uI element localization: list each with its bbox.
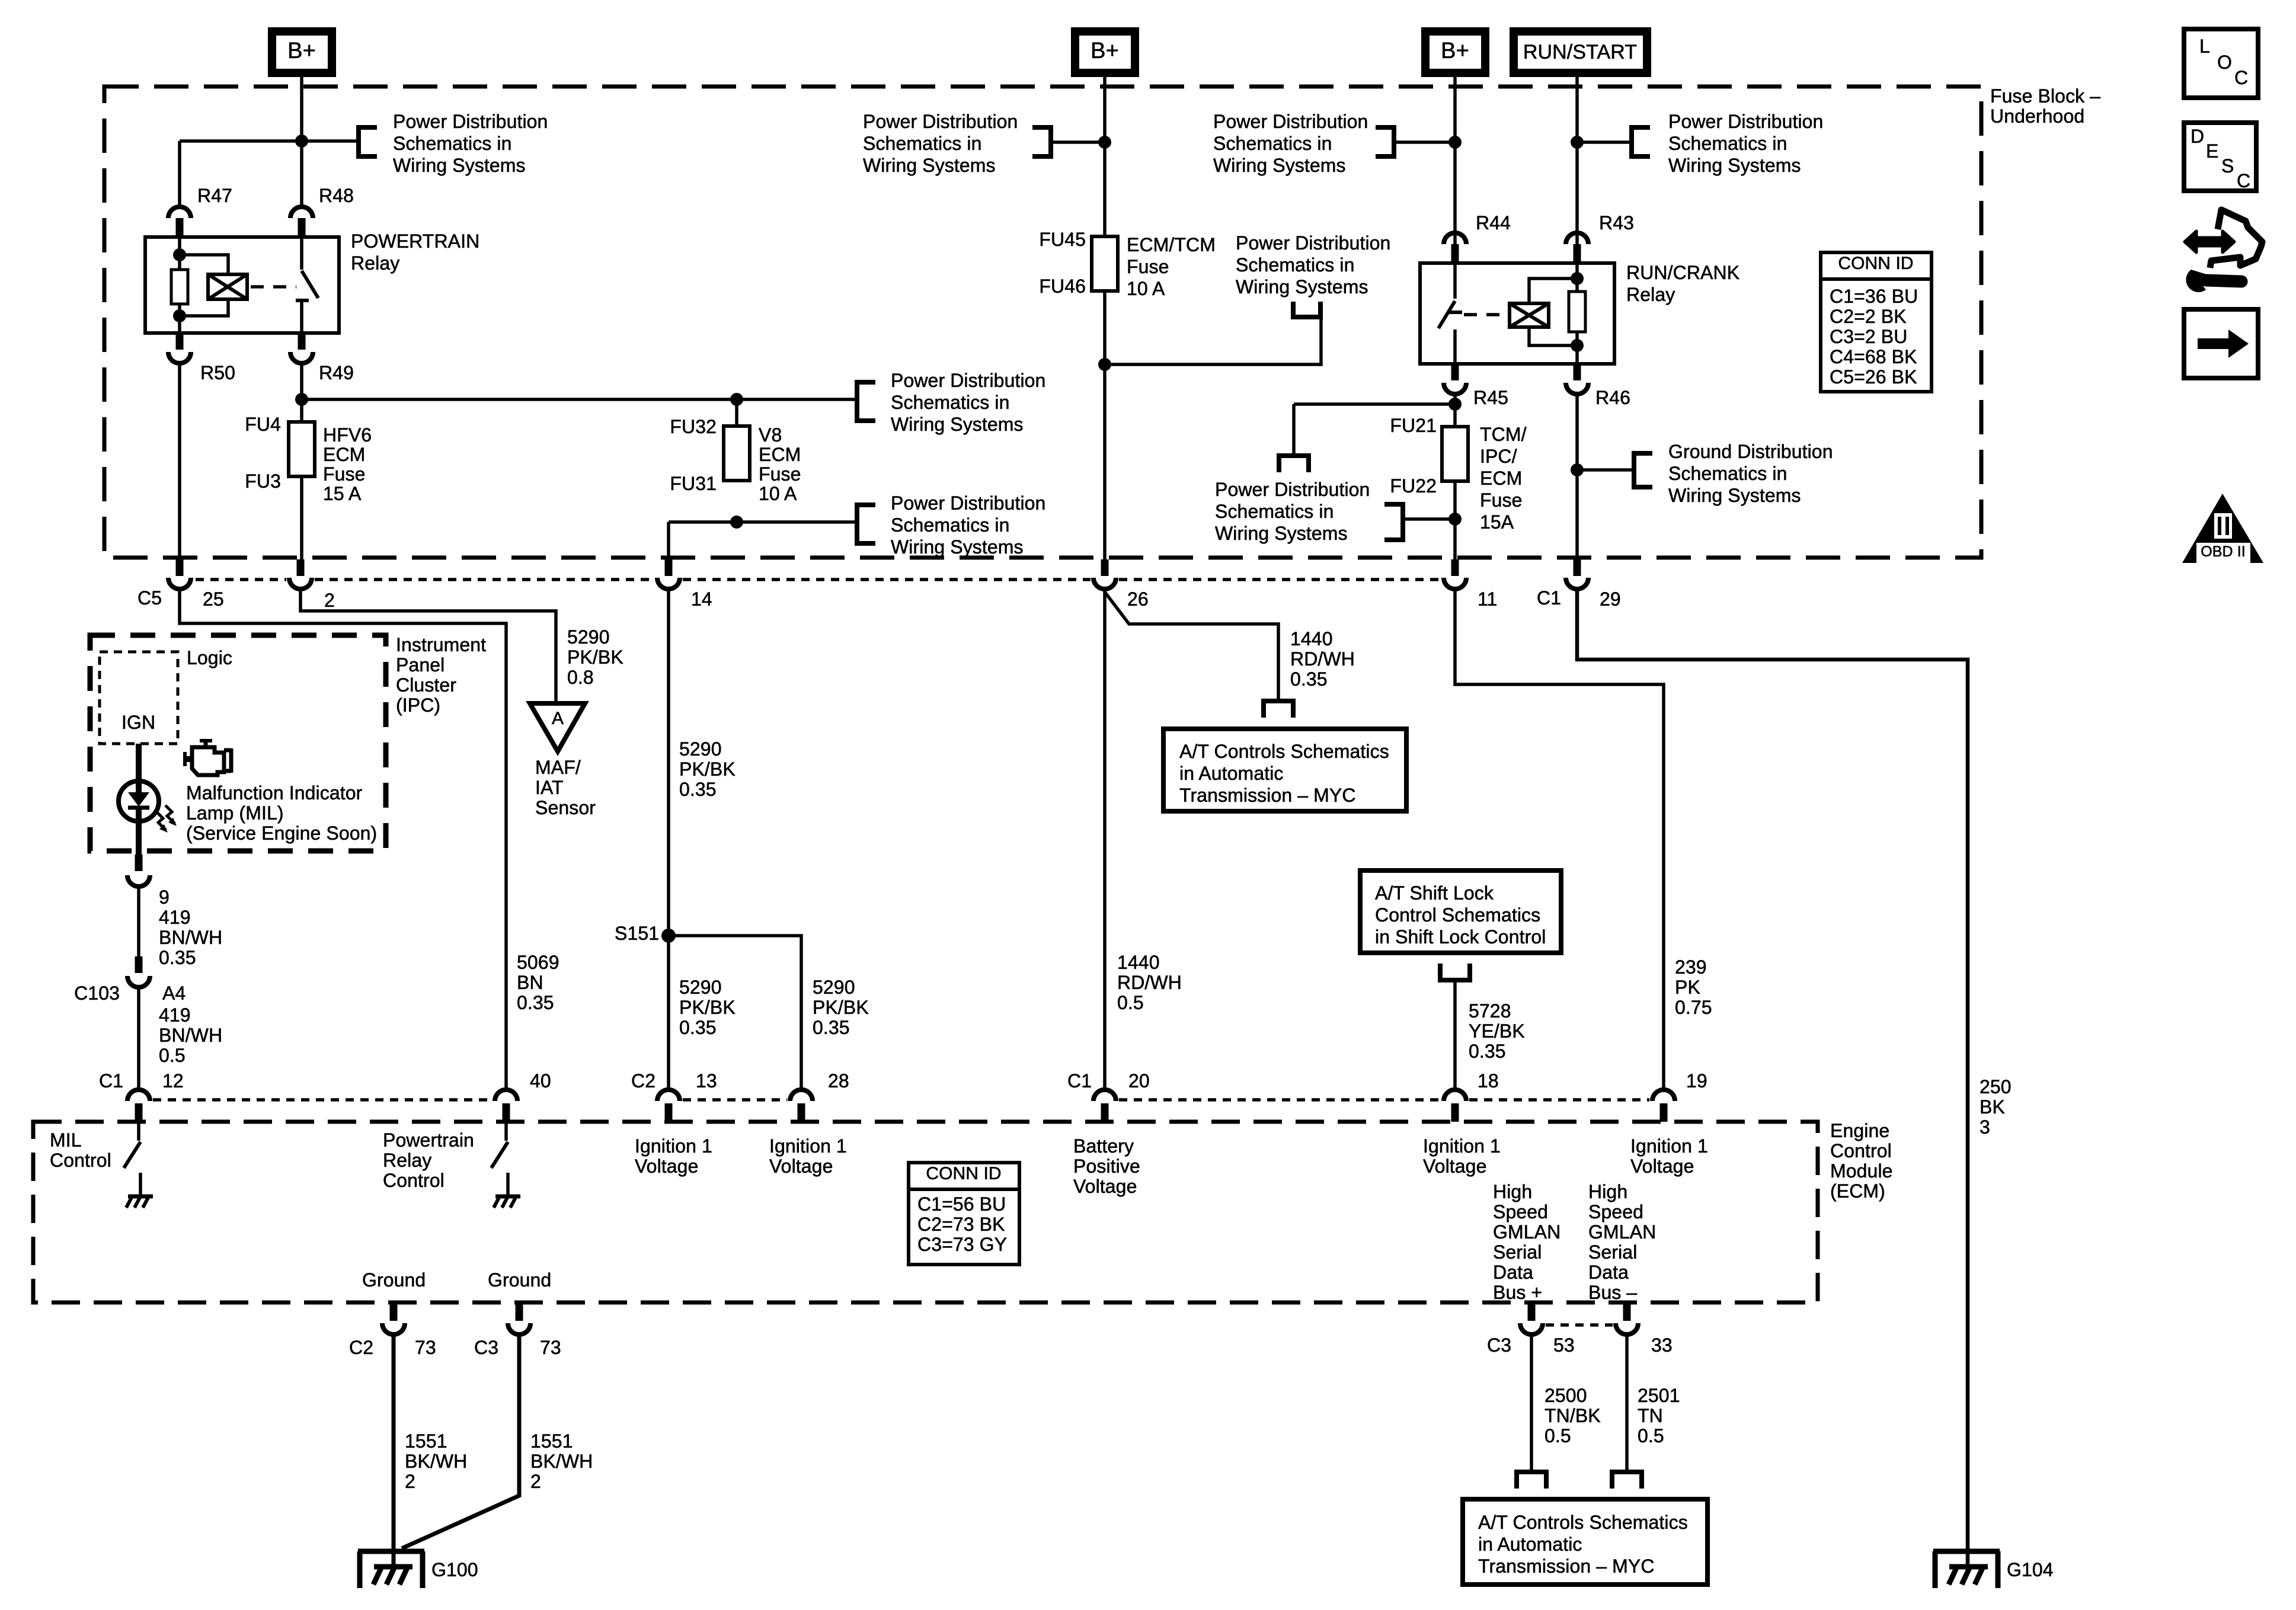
svg-text:0.35: 0.35 bbox=[159, 947, 196, 968]
svg-text:0.35: 0.35 bbox=[679, 1017, 717, 1038]
svg-text:Power Distribution: Power Distribution bbox=[1668, 111, 1823, 132]
fuse FU21/FU22 TCM/IPC/ECM 15A bbox=[1442, 427, 1468, 481]
reference bracket (power distribution) bbox=[1291, 315, 1323, 319]
svg-text:14: 14 bbox=[691, 588, 712, 610]
svg-text:RD/WH: RD/WH bbox=[1290, 648, 1355, 670]
svg-text:C1: C1 bbox=[1067, 1070, 1092, 1092]
svg-text:C3=73 GY: C3=73 GY bbox=[917, 1234, 1007, 1255]
ground G104 bbox=[1933, 1549, 2000, 1554]
connector pin C5 25 bbox=[176, 559, 184, 576]
connector pin C1 29 bbox=[1574, 559, 1581, 576]
svg-text:C1: C1 bbox=[1537, 587, 1561, 609]
reference bracket (bus -) bbox=[1610, 1470, 1644, 1474]
svg-text:12: 12 bbox=[162, 1070, 184, 1092]
svg-text:1551: 1551 bbox=[530, 1430, 573, 1452]
svg-text:BN/WH: BN/WH bbox=[159, 927, 222, 948]
svg-text:A/T Controls Schematics: A/T Controls Schematics bbox=[1478, 1512, 1688, 1533]
svg-text:G100: G100 bbox=[431, 1559, 478, 1580]
svg-text:3: 3 bbox=[1980, 1116, 1990, 1138]
svg-text:Wiring Systems: Wiring Systems bbox=[1668, 485, 1801, 506]
svg-text:1551: 1551 bbox=[405, 1430, 447, 1452]
svg-text:Voltage: Voltage bbox=[769, 1156, 833, 1177]
connector pin 26 bbox=[1101, 559, 1109, 576]
wire FU22 to fuse block pin 11 bbox=[1453, 481, 1457, 559]
power feed terminal B+ (right) bbox=[1425, 31, 1485, 73]
svg-text:0.5: 0.5 bbox=[1638, 1425, 1664, 1446]
svg-text:C3: C3 bbox=[1487, 1334, 1511, 1356]
relay coil resistor bbox=[171, 270, 188, 304]
svg-text:S151: S151 bbox=[615, 923, 659, 944]
svg-text:2: 2 bbox=[324, 590, 335, 611]
svg-text:ECM: ECM bbox=[759, 444, 801, 465]
power feed terminal B+ (left) bbox=[272, 31, 332, 73]
ECM pin 19 bbox=[1652, 1090, 1675, 1101]
svg-text:Power Distribution: Power Distribution bbox=[393, 111, 548, 132]
svg-text:Lamp (MIL): Lamp (MIL) bbox=[186, 802, 284, 824]
wire FU3 to fuse block pin 2 bbox=[300, 476, 303, 559]
svg-text:R45: R45 bbox=[1473, 387, 1508, 408]
svg-text:Control: Control bbox=[383, 1170, 445, 1191]
icon OBD II triangle bbox=[2182, 494, 2263, 563]
wire pin 14 to S151 (5290 PK/BK) bbox=[667, 590, 670, 1090]
svg-text:Ground Distribution: Ground Distribution bbox=[1668, 441, 1833, 462]
svg-text:Schematics in: Schematics in bbox=[891, 514, 1010, 536]
wire R49 down to fuse FU4 bbox=[300, 363, 303, 422]
svg-text:Ignition 1: Ignition 1 bbox=[1630, 1135, 1708, 1157]
svg-text:0.5: 0.5 bbox=[1117, 992, 1144, 1013]
svg-text:Relay: Relay bbox=[1626, 284, 1675, 305]
svg-text:ECM: ECM bbox=[1480, 468, 1522, 489]
connector pin 11 bbox=[1451, 559, 1459, 576]
svg-text:Control: Control bbox=[50, 1150, 111, 1171]
svg-text:O: O bbox=[2217, 52, 2232, 73]
svg-text:29: 29 bbox=[1600, 588, 1621, 610]
svg-text:C103: C103 bbox=[74, 982, 120, 1004]
svg-text:Ignition 1: Ignition 1 bbox=[635, 1135, 712, 1157]
connector pin R50 bbox=[176, 333, 184, 350]
svg-text:D: D bbox=[2191, 126, 2204, 147]
svg-text:Ignition 1: Ignition 1 bbox=[769, 1135, 847, 1157]
ECM pin 18 bbox=[1444, 1090, 1466, 1101]
svg-text:Schematics in: Schematics in bbox=[393, 133, 512, 154]
svg-text:B+: B+ bbox=[287, 39, 316, 63]
svg-text:C5=26 BK: C5=26 BK bbox=[1830, 366, 1917, 388]
ECM pin C2 13 bbox=[657, 1090, 680, 1101]
svg-text:in Automatic: in Automatic bbox=[1179, 763, 1284, 784]
relay POWERTRAIN box bbox=[145, 237, 339, 333]
svg-text:Power Distribution: Power Distribution bbox=[863, 111, 1018, 132]
relay coil feed wires bbox=[1529, 279, 1577, 303]
svg-text:C2: C2 bbox=[349, 1337, 373, 1358]
svg-text:Bus +: Bus + bbox=[1493, 1282, 1542, 1303]
svg-text:Ground: Ground bbox=[362, 1269, 426, 1291]
wire B+ center down through FU45 bbox=[1103, 77, 1107, 236]
engine icon (service engine soon) bbox=[192, 747, 224, 775]
relay RUN/CRANK box bbox=[1420, 263, 1614, 364]
svg-text:Instrument: Instrument bbox=[396, 634, 486, 655]
fuse block connector row dotted line bbox=[196, 578, 286, 581]
wire 2501 TN bbox=[1625, 1334, 1629, 1470]
svg-text:Wiring Systems: Wiring Systems bbox=[891, 414, 1024, 435]
relay coil feed wire bbox=[178, 237, 181, 271]
wire 1551 BK/WH right to G100 bbox=[402, 1334, 519, 1548]
svg-text:Fuse: Fuse bbox=[759, 463, 801, 485]
connector pin 2 bbox=[297, 559, 305, 576]
svg-text:MAF/: MAF/ bbox=[535, 757, 581, 778]
svg-text:0.35: 0.35 bbox=[813, 1017, 850, 1038]
svg-text:C: C bbox=[2237, 170, 2250, 191]
relay switch contact bbox=[1453, 263, 1457, 299]
svg-text:(ECM): (ECM) bbox=[1830, 1180, 1885, 1202]
svg-text:0.35: 0.35 bbox=[517, 992, 554, 1013]
svg-text:BK: BK bbox=[1980, 1096, 2005, 1118]
svg-text:C3: C3 bbox=[474, 1337, 498, 1358]
relay coil resistor bbox=[1575, 263, 1579, 292]
ground (MIL control) bbox=[128, 1195, 153, 1199]
indicator lamp MIL circle bbox=[119, 781, 159, 821]
svg-text:Ground: Ground bbox=[488, 1269, 551, 1291]
wire branch pin 26 to A/T controls reference bbox=[1105, 592, 1278, 701]
svg-text:Serial: Serial bbox=[1588, 1241, 1637, 1263]
svg-text:Wiring Systems: Wiring Systems bbox=[1215, 523, 1348, 544]
relay actuator dashed link bbox=[251, 285, 296, 289]
wire R45 to junction and left branch bbox=[1453, 394, 1457, 427]
CONN ID table (fuse block) bbox=[1821, 252, 1932, 392]
svg-text:C5: C5 bbox=[137, 587, 162, 609]
svg-text:2500: 2500 bbox=[1544, 1385, 1587, 1406]
svg-text:Control Schematics: Control Schematics bbox=[1375, 904, 1540, 926]
svg-text:BN/WH: BN/WH bbox=[159, 1025, 222, 1046]
lamp diode symbol bbox=[136, 782, 142, 792]
svg-text:CONN ID: CONN ID bbox=[1838, 254, 1913, 273]
wire horizontal fused feed to FU32 and bracket bbox=[669, 520, 855, 524]
svg-text:R46: R46 bbox=[1595, 387, 1630, 408]
svg-text:High: High bbox=[1493, 1181, 1532, 1202]
svg-text:TN: TN bbox=[1638, 1405, 1663, 1426]
svg-text:G104: G104 bbox=[2007, 1559, 2054, 1580]
svg-text:5290: 5290 bbox=[679, 977, 722, 998]
wire B+ left down to relay pin R48 bbox=[300, 77, 303, 207]
reference bracket (power distribution) bbox=[356, 125, 361, 159]
wire B+ right down to relay R44 bbox=[1394, 140, 1455, 144]
wire pin 2 to MAF sensor (5290 PK/BK 0.8) bbox=[300, 590, 556, 703]
svg-text:BN: BN bbox=[517, 972, 543, 993]
reference bracket to A/T controls bbox=[1261, 699, 1296, 703]
fuse block - underhood dashed box bbox=[104, 87, 1981, 558]
svg-text:Wiring Systems: Wiring Systems bbox=[863, 155, 996, 176]
svg-text:Schematics in: Schematics in bbox=[1668, 133, 1787, 154]
svg-text:GMLAN: GMLAN bbox=[1493, 1221, 1560, 1243]
ECM pin 33 bbox=[1623, 1302, 1631, 1321]
svg-text:Voltage: Voltage bbox=[1423, 1156, 1486, 1177]
svg-text:19: 19 bbox=[1686, 1070, 1707, 1092]
svg-text:Power Distribution: Power Distribution bbox=[891, 370, 1045, 391]
svg-text:C1=56 BU: C1=56 BU bbox=[917, 1193, 1006, 1215]
connector pin R49 bbox=[298, 333, 306, 350]
svg-text:C2=2 BK: C2=2 BK bbox=[1830, 306, 1907, 327]
splice node S151 bbox=[661, 929, 676, 943]
connector pin 14 bbox=[665, 559, 673, 576]
svg-text:Panel: Panel bbox=[396, 654, 445, 676]
svg-text:Schematics in: Schematics in bbox=[1236, 254, 1355, 276]
svg-text:Fuse: Fuse bbox=[323, 463, 366, 485]
svg-text:Wiring Systems: Wiring Systems bbox=[393, 155, 526, 176]
svg-text:419: 419 bbox=[159, 1004, 191, 1026]
svg-text:Voltage: Voltage bbox=[1073, 1176, 1137, 1197]
svg-text:B+: B+ bbox=[1441, 39, 1469, 63]
wire pin 29 to G104 (250 BK) bbox=[1577, 590, 1968, 1570]
svg-text:A/T Shift Lock: A/T Shift Lock bbox=[1375, 882, 1494, 904]
wire 5728 YE/BK to ECM pin 18 bbox=[1453, 980, 1457, 1090]
svg-text:0.35: 0.35 bbox=[1290, 668, 1328, 690]
svg-text:R49: R49 bbox=[319, 362, 354, 383]
svg-text:C2=73 BK: C2=73 BK bbox=[917, 1214, 1005, 1235]
svg-text:Voltage: Voltage bbox=[1630, 1156, 1694, 1177]
svg-text:C4=68 BK: C4=68 BK bbox=[1830, 346, 1917, 367]
svg-text:PK/BK: PK/BK bbox=[567, 646, 623, 668]
relay actuator dashed link bbox=[1464, 313, 1506, 316]
svg-text:Data: Data bbox=[1493, 1262, 1533, 1283]
wire 2500 TN/BK bbox=[1530, 1334, 1533, 1470]
power feed terminal RUN/START bbox=[1514, 31, 1647, 73]
reference bracket (power distribution) bbox=[855, 502, 859, 546]
svg-text:5728: 5728 bbox=[1469, 1000, 1511, 1022]
svg-text:(IPC): (IPC) bbox=[396, 694, 440, 716]
svg-text:PK/BK: PK/BK bbox=[679, 997, 736, 1018]
svg-text:40: 40 bbox=[530, 1070, 551, 1092]
svg-text:R48: R48 bbox=[319, 185, 354, 206]
wire 1551 BK/WH left to G100 bbox=[392, 1334, 396, 1570]
svg-text:Power Distribution: Power Distribution bbox=[1215, 479, 1370, 500]
relay coil symbol bbox=[1510, 303, 1549, 327]
svg-text:CONN ID: CONN ID bbox=[926, 1164, 1001, 1183]
wire to left reference bracket bbox=[1053, 140, 1105, 144]
svg-text:Powertrain: Powertrain bbox=[383, 1129, 474, 1151]
svg-text:Bus –: Bus – bbox=[1588, 1282, 1637, 1303]
svg-text:9: 9 bbox=[159, 886, 170, 908]
svg-text:A/T Controls Schematics: A/T Controls Schematics bbox=[1179, 741, 1389, 762]
svg-text:Transmission – MYC: Transmission – MYC bbox=[1478, 1555, 1655, 1577]
svg-text:Power Distribution: Power Distribution bbox=[1213, 111, 1368, 132]
svg-text:Engine: Engine bbox=[1830, 1120, 1889, 1141]
svg-text:Ignition 1: Ignition 1 bbox=[1423, 1135, 1501, 1157]
svg-text:ECM/TCM: ECM/TCM bbox=[1127, 234, 1216, 255]
callout box A/T Shift Lock Control Schematics bbox=[1360, 870, 1561, 953]
CONN ID table (ECM) bbox=[909, 1163, 1019, 1265]
svg-text:Cluster: Cluster bbox=[396, 674, 456, 696]
svg-text:15 A: 15 A bbox=[323, 483, 362, 504]
svg-text:High: High bbox=[1588, 1181, 1627, 1202]
logic dashed box bbox=[100, 652, 178, 744]
svg-text:FU45: FU45 bbox=[1039, 229, 1086, 250]
svg-text:PK/BK: PK/BK bbox=[679, 758, 736, 780]
svg-text:0.8: 0.8 bbox=[567, 667, 594, 688]
svg-text:in Automatic: in Automatic bbox=[1478, 1534, 1582, 1555]
wire pin 11 to ECM pin 18 feed (239 PK riser) bbox=[1455, 590, 1664, 1090]
svg-text:0.35: 0.35 bbox=[679, 779, 717, 800]
reference bracket (power distribution) bbox=[855, 380, 859, 423]
icon forward arrow box bbox=[2184, 309, 2258, 378]
ECM pin 28 bbox=[790, 1090, 813, 1101]
svg-text:10 A: 10 A bbox=[759, 483, 797, 504]
svg-text:Voltage: Voltage bbox=[635, 1156, 698, 1177]
svg-text:Control: Control bbox=[1830, 1140, 1892, 1161]
svg-text:250: 250 bbox=[1980, 1076, 2012, 1097]
svg-text:Data: Data bbox=[1588, 1262, 1629, 1283]
wire R46 junction to bracket bbox=[1577, 468, 1632, 472]
svg-text:Wiring Systems: Wiring Systems bbox=[1236, 276, 1368, 297]
svg-text:5290: 5290 bbox=[679, 738, 722, 760]
svg-text:Fuse: Fuse bbox=[1127, 256, 1169, 277]
power feed terminal B+ (center) bbox=[1075, 31, 1135, 73]
svg-text:73: 73 bbox=[415, 1337, 436, 1358]
svg-text:Serial: Serial bbox=[1493, 1241, 1542, 1263]
svg-text:Battery: Battery bbox=[1073, 1135, 1134, 1157]
svg-text:Wiring Systems: Wiring Systems bbox=[1668, 155, 1801, 176]
svg-text:C2: C2 bbox=[631, 1070, 655, 1092]
ground G100 bbox=[358, 1549, 424, 1554]
inline connector C103 pin A4 bbox=[135, 956, 143, 973]
icon wrench and arrow bbox=[2185, 231, 2234, 252]
svg-text:0.5: 0.5 bbox=[159, 1045, 186, 1066]
svg-text:5290: 5290 bbox=[567, 626, 610, 648]
svg-text:33: 33 bbox=[1651, 1334, 1673, 1356]
svg-text:Fuse Block –: Fuse Block – bbox=[1990, 85, 2100, 107]
reference bracket (ground distribution) bbox=[1632, 451, 1636, 489]
svg-text:239: 239 bbox=[1675, 956, 1707, 978]
reference bracket (bus +) bbox=[1514, 1470, 1549, 1474]
wire MIL lamp to IPC pin 9 bbox=[136, 820, 142, 854]
svg-text:18: 18 bbox=[1478, 1070, 1499, 1092]
svg-text:TCM/: TCM/ bbox=[1480, 424, 1527, 445]
svg-text:IPC/: IPC/ bbox=[1480, 446, 1517, 467]
svg-text:in Shift Lock Control: in Shift Lock Control bbox=[1375, 926, 1546, 948]
svg-text:A: A bbox=[552, 709, 564, 728]
svg-text:(Service Engine Soon): (Service Engine Soon) bbox=[186, 822, 377, 844]
wire FU32 top to junction on R49 line bbox=[735, 399, 738, 426]
svg-text:1440: 1440 bbox=[1290, 628, 1333, 649]
svg-text:20: 20 bbox=[1128, 1070, 1150, 1092]
svg-text:A4: A4 bbox=[162, 982, 186, 1004]
svg-text:Power Distribution: Power Distribution bbox=[1236, 232, 1390, 254]
wire R49 junction to reference bracket bbox=[302, 398, 855, 401]
svg-text:FU4: FU4 bbox=[245, 414, 281, 435]
svg-text:419: 419 bbox=[159, 907, 191, 928]
wire FU22 junction left to bracket bbox=[1405, 517, 1455, 521]
svg-text:FU46: FU46 bbox=[1039, 276, 1086, 297]
svg-text:53: 53 bbox=[1553, 1334, 1575, 1356]
wire FU31 bottom junction down to pin 14 bbox=[667, 522, 670, 559]
svg-text:R47: R47 bbox=[197, 185, 232, 206]
svg-text:PK/BK: PK/BK bbox=[813, 997, 869, 1018]
wire R46 to fuse block pin 29 bbox=[1575, 394, 1579, 559]
svg-text:L: L bbox=[2199, 36, 2210, 57]
svg-text:E: E bbox=[2206, 140, 2218, 162]
svg-text:13: 13 bbox=[696, 1070, 717, 1092]
callout box A/T Controls Schematics (bottom) bbox=[1463, 1499, 1707, 1585]
ECM bottom pins dotted line bbox=[1546, 1323, 1613, 1327]
svg-text:Logic: Logic bbox=[187, 647, 232, 668]
svg-text:Fuse: Fuse bbox=[1480, 489, 1523, 511]
svg-text:R50: R50 bbox=[200, 362, 235, 383]
svg-text:S: S bbox=[2221, 155, 2234, 177]
relay switch contact bbox=[300, 237, 303, 270]
svg-text:0.75: 0.75 bbox=[1675, 997, 1712, 1018]
svg-text:RUN/START: RUN/START bbox=[1523, 41, 1637, 63]
wire branch to R47 and reference bracket bbox=[180, 139, 356, 143]
svg-text:1440: 1440 bbox=[1117, 952, 1160, 973]
svg-text:0.5: 0.5 bbox=[1544, 1425, 1571, 1446]
engine control module dashed box bbox=[33, 1122, 1818, 1302]
ECM pin C1 20 bbox=[1093, 1090, 1116, 1101]
ECM switch MIL control bbox=[137, 1122, 140, 1141]
svg-text:IGN: IGN bbox=[121, 712, 155, 733]
svg-text:Module: Module bbox=[1830, 1160, 1893, 1182]
wire pin 25 to ECM pin 40 (5069 BN) bbox=[180, 590, 506, 1090]
svg-text:FU3: FU3 bbox=[245, 470, 281, 492]
svg-text:5069: 5069 bbox=[517, 952, 559, 973]
wire S151 branch to ECM pin 28 bbox=[669, 936, 801, 1090]
ground (powertrain relay control) bbox=[495, 1195, 520, 1199]
svg-text:26: 26 bbox=[1127, 588, 1149, 610]
fuse FU32/FU31 V8 ECM 10A bbox=[724, 426, 750, 481]
wire RUN/START down to relay R43 bbox=[1575, 77, 1579, 247]
wire R50 to fuse block pin 25 bbox=[178, 363, 181, 559]
connector pin 9 bbox=[135, 854, 143, 871]
reference bracket for B+ right bbox=[1392, 125, 1396, 159]
svg-text:C3=2 BU: C3=2 BU bbox=[1830, 326, 1907, 347]
fuse FU45/FU46 ECM/TCM 10A bbox=[1092, 236, 1118, 291]
svg-text:Wiring Systems: Wiring Systems bbox=[1213, 155, 1346, 176]
svg-text:TN/BK: TN/BK bbox=[1544, 1405, 1601, 1426]
svg-text:RD/WH: RD/WH bbox=[1117, 972, 1182, 993]
instrument panel cluster dashed box bbox=[90, 635, 386, 851]
callout box A/T Controls Schematics in Automatic Transmission - MYC bbox=[1163, 729, 1406, 811]
svg-text:Speed: Speed bbox=[1493, 1201, 1548, 1222]
svg-text:2: 2 bbox=[405, 1471, 415, 1492]
svg-text:Sensor: Sensor bbox=[535, 797, 596, 818]
svg-text:11: 11 bbox=[1478, 588, 1497, 610]
svg-text:Schematics in: Schematics in bbox=[1215, 501, 1334, 522]
svg-text:15A: 15A bbox=[1480, 511, 1514, 533]
svg-text:C1=36 BU: C1=36 BU bbox=[1830, 286, 1918, 307]
svg-text:Transmission – MYC: Transmission – MYC bbox=[1179, 785, 1356, 806]
svg-text:B+: B+ bbox=[1091, 39, 1119, 63]
reference bracket (power distribution) bbox=[1277, 453, 1311, 458]
wire IGN to MIL lamp bbox=[136, 744, 142, 782]
svg-text:FU21: FU21 bbox=[1390, 415, 1437, 436]
svg-text:Speed: Speed bbox=[1588, 1201, 1643, 1222]
reference bracket (power distribution) bbox=[1629, 125, 1634, 159]
svg-text:10 A: 10 A bbox=[1127, 278, 1165, 299]
svg-text:Schematics in: Schematics in bbox=[863, 133, 982, 154]
svg-text:C1: C1 bbox=[99, 1070, 123, 1092]
svg-text:Relay: Relay bbox=[383, 1150, 431, 1171]
connector pin R45 bbox=[1451, 364, 1459, 380]
relay coil return wire bbox=[180, 299, 228, 316]
wire 419 BN/WH to C103 bbox=[137, 886, 140, 956]
svg-text:28: 28 bbox=[828, 1070, 849, 1092]
wire pin 26 to ECM pin 20 (1440 RD/WH) bbox=[1103, 590, 1107, 1090]
svg-text:V8: V8 bbox=[759, 424, 782, 446]
wire RUN/START junction to bracket bbox=[1577, 140, 1629, 144]
reference bracket to shift lock control bbox=[1438, 978, 1472, 982]
wire FU46 down to fuse block pin 26 bbox=[1103, 291, 1107, 559]
node junction on B+ wire bbox=[295, 135, 308, 148]
svg-text:C: C bbox=[2234, 67, 2248, 88]
svg-text:PK: PK bbox=[1675, 977, 1700, 998]
svg-text:HFV6: HFV6 bbox=[323, 424, 372, 446]
